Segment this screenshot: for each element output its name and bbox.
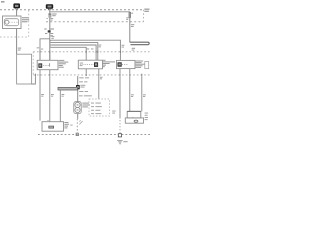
- wire label on signal wire: [100, 77, 103, 80]
- wire from J1 down to fuel pump relay: [16, 8, 18, 16]
- wire labels on sensor wires: [131, 94, 146, 97]
- fuel pump module assembly top dashed row: [33, 51, 150, 53]
- heavy branch bar from connector to pump module: [58, 87, 77, 90]
- sensor ground dashes to splice: [119, 120, 121, 133]
- relay module B3 box: [117, 60, 136, 68]
- wire band w4: [50, 47, 86, 61]
- B3 dashed link: [122, 63, 128, 65]
- hot at all times label top right: [144, 9, 149, 12]
- splice pack S1 on main wire: [48, 30, 51, 32]
- splice arrow marker: [79, 120, 82, 124]
- engine control module pin wire: [32, 76, 36, 84]
- wire down signal to legend: [98, 76, 100, 99]
- B1 label text: [59, 60, 69, 68]
- fuel level sensor housing: [125, 118, 143, 123]
- assembly bottom dashed row: [33, 74, 150, 76]
- splice S1 labels: [44, 29, 54, 37]
- fuel pump relay K1 box: [3, 16, 22, 29]
- wire down pump power feed: [77, 76, 79, 102]
- legend rows: [91, 103, 102, 115]
- fuse F1 labels: [126, 13, 133, 20]
- wire label below connector: [47, 18, 54, 21]
- horizontal feed wire to fuse: [50, 11, 130, 13]
- ground label: [123, 141, 127, 142]
- sensor pin tick: [132, 117, 134, 119]
- connector pins line: [47, 119, 50, 121]
- fuel pump motor assembly: [74, 102, 81, 114]
- B2 dashed link: [80, 64, 94, 66]
- wire label above band: [51, 36, 54, 39]
- fuel level sensor connector body: [127, 111, 141, 118]
- B1 internal switch element: [38, 63, 42, 67]
- pump ground wire solid then dashed: [77, 114, 79, 119]
- legend dashed box: [89, 99, 110, 116]
- B2 left pin marks: [80, 63, 83, 67]
- fuse F1 in underhood fuse block: [129, 12, 131, 18]
- reference box right of B3: [145, 62, 149, 69]
- wire band w2: [50, 43, 98, 61]
- assembly left dashed edge: [32, 52, 34, 75]
- page header text: [1, 1, 5, 3]
- B1 pins to bottom row: [39, 70, 41, 74]
- wire labels below band: [37, 45, 125, 50]
- main feed wire from J2 down: [49, 9, 51, 61]
- wire label on pump feed: [79, 77, 89, 82]
- B2 internal sensor element: [94, 62, 98, 67]
- relay label text: [22, 17, 29, 22]
- fuse block lower boundary row C2 (dashed): [46, 21, 144, 23]
- B1 dashed actuator link: [43, 65, 49, 67]
- splice marker label: [70, 124, 72, 127]
- wire labels above fuel tank unit: [41, 94, 92, 97]
- B2 pins to bottom row: [85, 69, 87, 74]
- wire from fuse down: [129, 18, 131, 43]
- tank assembly bottom dashed row: [38, 134, 150, 136]
- B3 pins to bottom row: [119, 69, 121, 74]
- strainer element inside: [48, 126, 54, 129]
- wire down level sensor signal: [119, 76, 121, 118]
- sensor pin text right: [145, 113, 148, 121]
- in-line connector C1 on feed wire: [48, 14, 51, 15]
- ground G1 symbol: [117, 141, 122, 144]
- wire down level sensor signal low: [129, 76, 131, 111]
- in-line connector C2 on pump feed: [76, 85, 80, 89]
- engine control module box: [17, 54, 32, 84]
- wire labels left of sensor: [112, 111, 115, 114]
- wire down left pump feed: [39, 76, 41, 121]
- fuel pump flow control module B2 box: [78, 60, 102, 69]
- relay contact dashed link: [9, 21, 18, 23]
- sensor resistor element: [134, 120, 138, 122]
- pump label text: [82, 103, 90, 108]
- pump motor lower circle: [75, 107, 80, 112]
- relay inner contact carrier: [4, 19, 18, 26]
- wire label 20 OG: [18, 48, 21, 51]
- shielded capsule to right edge: [130, 42, 149, 45]
- wires from row into module B1: [39, 53, 41, 60]
- wire band w1: [50, 40, 121, 60]
- wire band w3: [50, 45, 96, 60]
- pump motor upper circle: [75, 102, 80, 107]
- B3 internal element: [118, 62, 122, 66]
- fuse block right edge (dashed): [28, 10, 30, 37]
- fuse block right boundary at top right (dashed): [143, 10, 145, 22]
- capsule wire label: [132, 48, 135, 51]
- connector ticks through top row: [40, 51, 120, 53]
- B2 label text: [103, 60, 115, 67]
- harness connector on bottom row: [76, 133, 78, 135]
- fuel tank unit connector body: [42, 122, 64, 132]
- relay coil circle: [5, 20, 9, 24]
- connector ticks through bottom row: [35, 74, 141, 76]
- wire from relay down to engine control module: [16, 29, 18, 55]
- fuse block bottom edge (dashed): [0, 36, 29, 38]
- branch wire to module B1 left pin: [40, 39, 50, 61]
- tank unit label text: [64, 122, 69, 128]
- wire down level sensor return: [141, 76, 143, 111]
- wire down main bus to pump: [49, 76, 51, 122]
- B3 label text: [136, 61, 145, 68]
- battery positive junction icon J2 (top middle): [46, 4, 53, 10]
- fuel pump driver module B1 box: [37, 60, 58, 69]
- wire label 20 GY: [131, 24, 134, 27]
- branch wire down: [59, 90, 61, 122]
- ground splice S2: [118, 134, 121, 137]
- underhood fuse block top boundary (dashed): [0, 9, 144, 11]
- battery positive junction icon J1 (top left): [13, 3, 20, 9]
